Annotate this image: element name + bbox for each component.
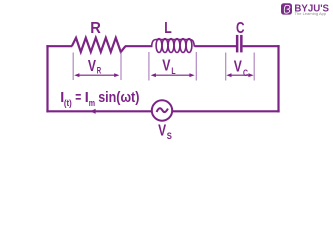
VR tick right: [120, 53, 122, 81]
svg-text:V: V: [162, 58, 170, 75]
wire bottom right segment: [172, 110, 280, 112]
BYJU'S logo B mark: [284, 5, 290, 13]
svg-text:V: V: [158, 122, 166, 139]
svg-text:C: C: [236, 20, 245, 37]
VC tick right: [253, 53, 255, 81]
svg-text:sin(ωt): sin(ωt): [98, 89, 139, 106]
svg-text:V: V: [88, 58, 96, 75]
current direction arrowhead: [90, 109, 95, 114]
VC arrow: [226, 73, 253, 77]
inductor L: [152, 39, 195, 53]
VL tick right: [195, 52, 197, 81]
wire L to C: [194, 45, 236, 47]
VL tick left: [148, 52, 150, 81]
wire bottom left segment: [46, 110, 152, 112]
svg-text:L: L: [171, 66, 175, 77]
BYJU'S logo badge: [281, 3, 292, 14]
svg-text:L: L: [164, 20, 172, 37]
wire left vertical: [46, 45, 48, 112]
wire C to right corner: [243, 45, 280, 47]
svg-text:R: R: [90, 20, 101, 37]
VR arrow: [74, 73, 119, 77]
svg-text:V: V: [234, 59, 242, 76]
AC source sine symbol: [157, 108, 168, 112]
wire right vertical: [277, 45, 279, 112]
capacitor C plate right: [240, 35, 243, 53]
svg-text:S: S: [167, 131, 172, 142]
svg-text:(t): (t): [64, 98, 72, 109]
svg-text:=: =: [75, 89, 81, 106]
svg-text:R: R: [97, 66, 101, 77]
wire R to L: [125, 45, 153, 47]
resistor R: [72, 38, 126, 52]
svg-text:The Learning App: The Learning App: [295, 12, 327, 16]
VR tick left: [72, 53, 74, 81]
capacitor C plate left: [236, 35, 239, 53]
VC tick left: [225, 53, 227, 81]
wire top-left segment: [46, 45, 72, 47]
VL arrow: [151, 73, 195, 77]
svg-text:C: C: [243, 68, 248, 79]
AC source VS circle: [152, 100, 172, 120]
svg-text:m: m: [89, 98, 95, 109]
current equation label I(t) = Im sin(wt): [60, 89, 139, 109]
